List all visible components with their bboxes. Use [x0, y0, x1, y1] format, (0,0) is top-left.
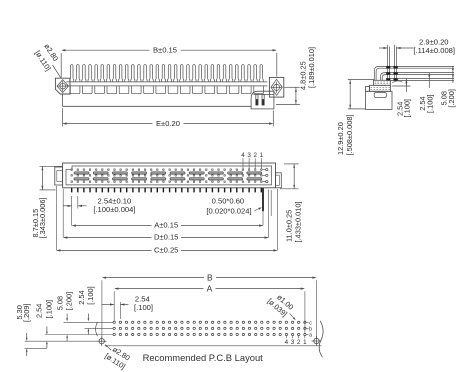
- side view hidden lines (dashed): [375, 81, 391, 83]
- svg-text:2.54: 2.54: [77, 290, 86, 304]
- svg-text:1: 1: [260, 152, 264, 159]
- side view pin crossing marks (solid black): [386, 66, 390, 68]
- svg-text:c: c: [309, 320, 312, 326]
- pcb left mounting hole ⌀2.80: [99, 339, 104, 344]
- dimension 4.8±0.25 (front view right): [284, 86, 300, 88]
- svg-text:[.200]: [.200]: [447, 89, 456, 108]
- svg-text:[0.020*0.024]: [0.020*0.024]: [206, 207, 251, 216]
- svg-text:4: 4: [241, 152, 245, 159]
- front view right foot with two PCB pins: [251, 91, 274, 109]
- mating face pin tails (solid): [71, 188, 262, 193]
- dimension 2.54 [.100] (pcb rows c-b): [87, 314, 89, 319]
- svg-text:[.114±0.008]: [.114±0.008]: [413, 46, 455, 55]
- svg-text:A±0.15: A±0.15: [154, 221, 178, 230]
- dimension B±0.15 (front view top): [60, 53, 62, 78]
- svg-text:2.54: 2.54: [35, 304, 44, 318]
- mating face row end circles: [262, 169, 265, 171]
- pcb layout hole grid 3x32: [113, 321, 115, 323]
- front view right mounting ear with hole symbol: [269, 77, 283, 97]
- pcb right mounting hole: [314, 338, 319, 343]
- svg-text:[.100]: [.100]: [134, 303, 153, 312]
- svg-text:[.100±0.004]: [.100±0.004]: [93, 205, 135, 214]
- dimension 8.7±0.15 (middle view left height): [40, 165, 63, 167]
- dimension 11.0±0.25 (middle view right height): [284, 163, 299, 165]
- svg-text:2: 2: [253, 152, 257, 159]
- front view pins (32 straight pins pointing up): [70, 65, 264, 82]
- dimension C±0.25 (middle view): [55, 186, 57, 250]
- svg-text:11.0±0.25: 11.0±0.25: [285, 210, 294, 242]
- svg-text:[.100]: [.100]: [403, 99, 412, 118]
- svg-text:D±0.15: D±0.15: [154, 233, 178, 242]
- svg-text:b: b: [309, 326, 312, 332]
- svg-text:4: 4: [285, 339, 289, 346]
- svg-text:[.343±0.006]: [.343±0.006]: [38, 197, 47, 238]
- svg-text:[.189±0.010]: [.189±0.010]: [307, 47, 316, 88]
- pcb board edge line: [105, 345, 322, 347]
- svg-text:[.200]: [.200]: [64, 292, 73, 311]
- mating face right tab: [276, 173, 282, 188]
- svg-text:[.100]: [.100]: [86, 286, 95, 305]
- dimension 5.30 [.209] (pcb hole to edge): [26, 333, 28, 338]
- svg-text:B±0.15: B±0.15: [153, 45, 177, 54]
- svg-text:B: B: [207, 273, 213, 283]
- dimension E±0.20 (front view bottom): [61, 108, 63, 126]
- mating face outer housing: [63, 163, 276, 188]
- mating face polarizing bars: [74, 172, 89, 174]
- side view bent pin row 3: [387, 79, 455, 81]
- extension line right of highlighted pin: [270, 190, 272, 216]
- mating face left tab: [55, 167, 63, 185]
- dimension 2.54 [.100] (pcb row a to hole): [46, 327, 48, 332]
- dimension 2.9±0.20 (side view pin width): [379, 47, 387, 49]
- dimension 2.54 [.100] (side view row 3 to body): [392, 85, 410, 87]
- dimension B (pcb): [101, 280, 103, 338]
- dimension 2.54±0.10 (contact pitch): [71, 196, 73, 226]
- pcb partial-view break arc near left hole: [96, 322, 98, 336]
- svg-text:[.100]: [.100]: [45, 300, 54, 319]
- svg-text:2: 2: [297, 339, 301, 346]
- svg-text:E±0.20: E±0.20: [156, 119, 180, 128]
- dimension D±0.15 (middle view): [62, 189, 64, 238]
- svg-text:[.209]: [.209]: [22, 304, 31, 323]
- side view bent pin row 2: [380, 73, 454, 81]
- svg-text:A: A: [207, 284, 213, 294]
- side view bent pin row 1 (top): [374, 66, 454, 80]
- svg-text:[.508±0.008]: [.508±0.008]: [345, 114, 354, 155]
- pcb row extension lines (left): [64, 321, 114, 323]
- svg-text:1: 1: [303, 339, 307, 346]
- svg-text:a: a: [309, 333, 312, 339]
- svg-text:Recommended P.C.B Layout: Recommended P.C.B Layout: [143, 352, 264, 363]
- pcb row letters c b a: [306, 321, 308, 323]
- svg-text:[.100]: [.100]: [426, 95, 435, 114]
- dimension A (pcb): [113, 291, 115, 321]
- front view body outline: [66, 81, 267, 83]
- svg-text:[.433±0.010]: [.433±0.010]: [294, 201, 303, 242]
- svg-text:C±0.25: C±0.25: [154, 246, 178, 255]
- side view connector body: [374, 80, 391, 85]
- mating face inner shroud: [66, 166, 272, 185]
- pcb board break curve: [319, 321, 323, 357]
- side view leader squiggle: [392, 81, 402, 83]
- dimension 5.08 [.200] (pcb rows c-a): [66, 314, 68, 319]
- svg-text:5.08: 5.08: [55, 296, 64, 310]
- highlighted pin tail for 0.50*0.60 callout: [262, 188, 264, 211]
- dimension A±0.15 (middle view): [262, 211, 264, 226]
- dimension 2.54 [.100] (pcb hole pitch): [119, 302, 121, 319]
- front view left mounting ear with hole symbol: [55, 78, 70, 94]
- svg-text:12.9±0.20: 12.9±0.20: [336, 122, 345, 155]
- svg-text:0.50*0.60: 0.50*0.60: [212, 197, 245, 206]
- front view bottom tabs: [70, 86, 263, 94]
- dimension 12.9±0.20 (side view height): [348, 79, 374, 81]
- dimension 5.08 [.200] (side view rows 1-3): [452, 66, 454, 83]
- svg-text:3: 3: [247, 152, 251, 159]
- svg-text:3: 3: [291, 339, 295, 346]
- side view straight pins (vertical pair): [388, 45, 390, 80]
- dimension 2.54 [.100] (side view rows 2-3): [428, 73, 430, 88]
- mating face contact grid 3x32: [71, 169, 262, 182]
